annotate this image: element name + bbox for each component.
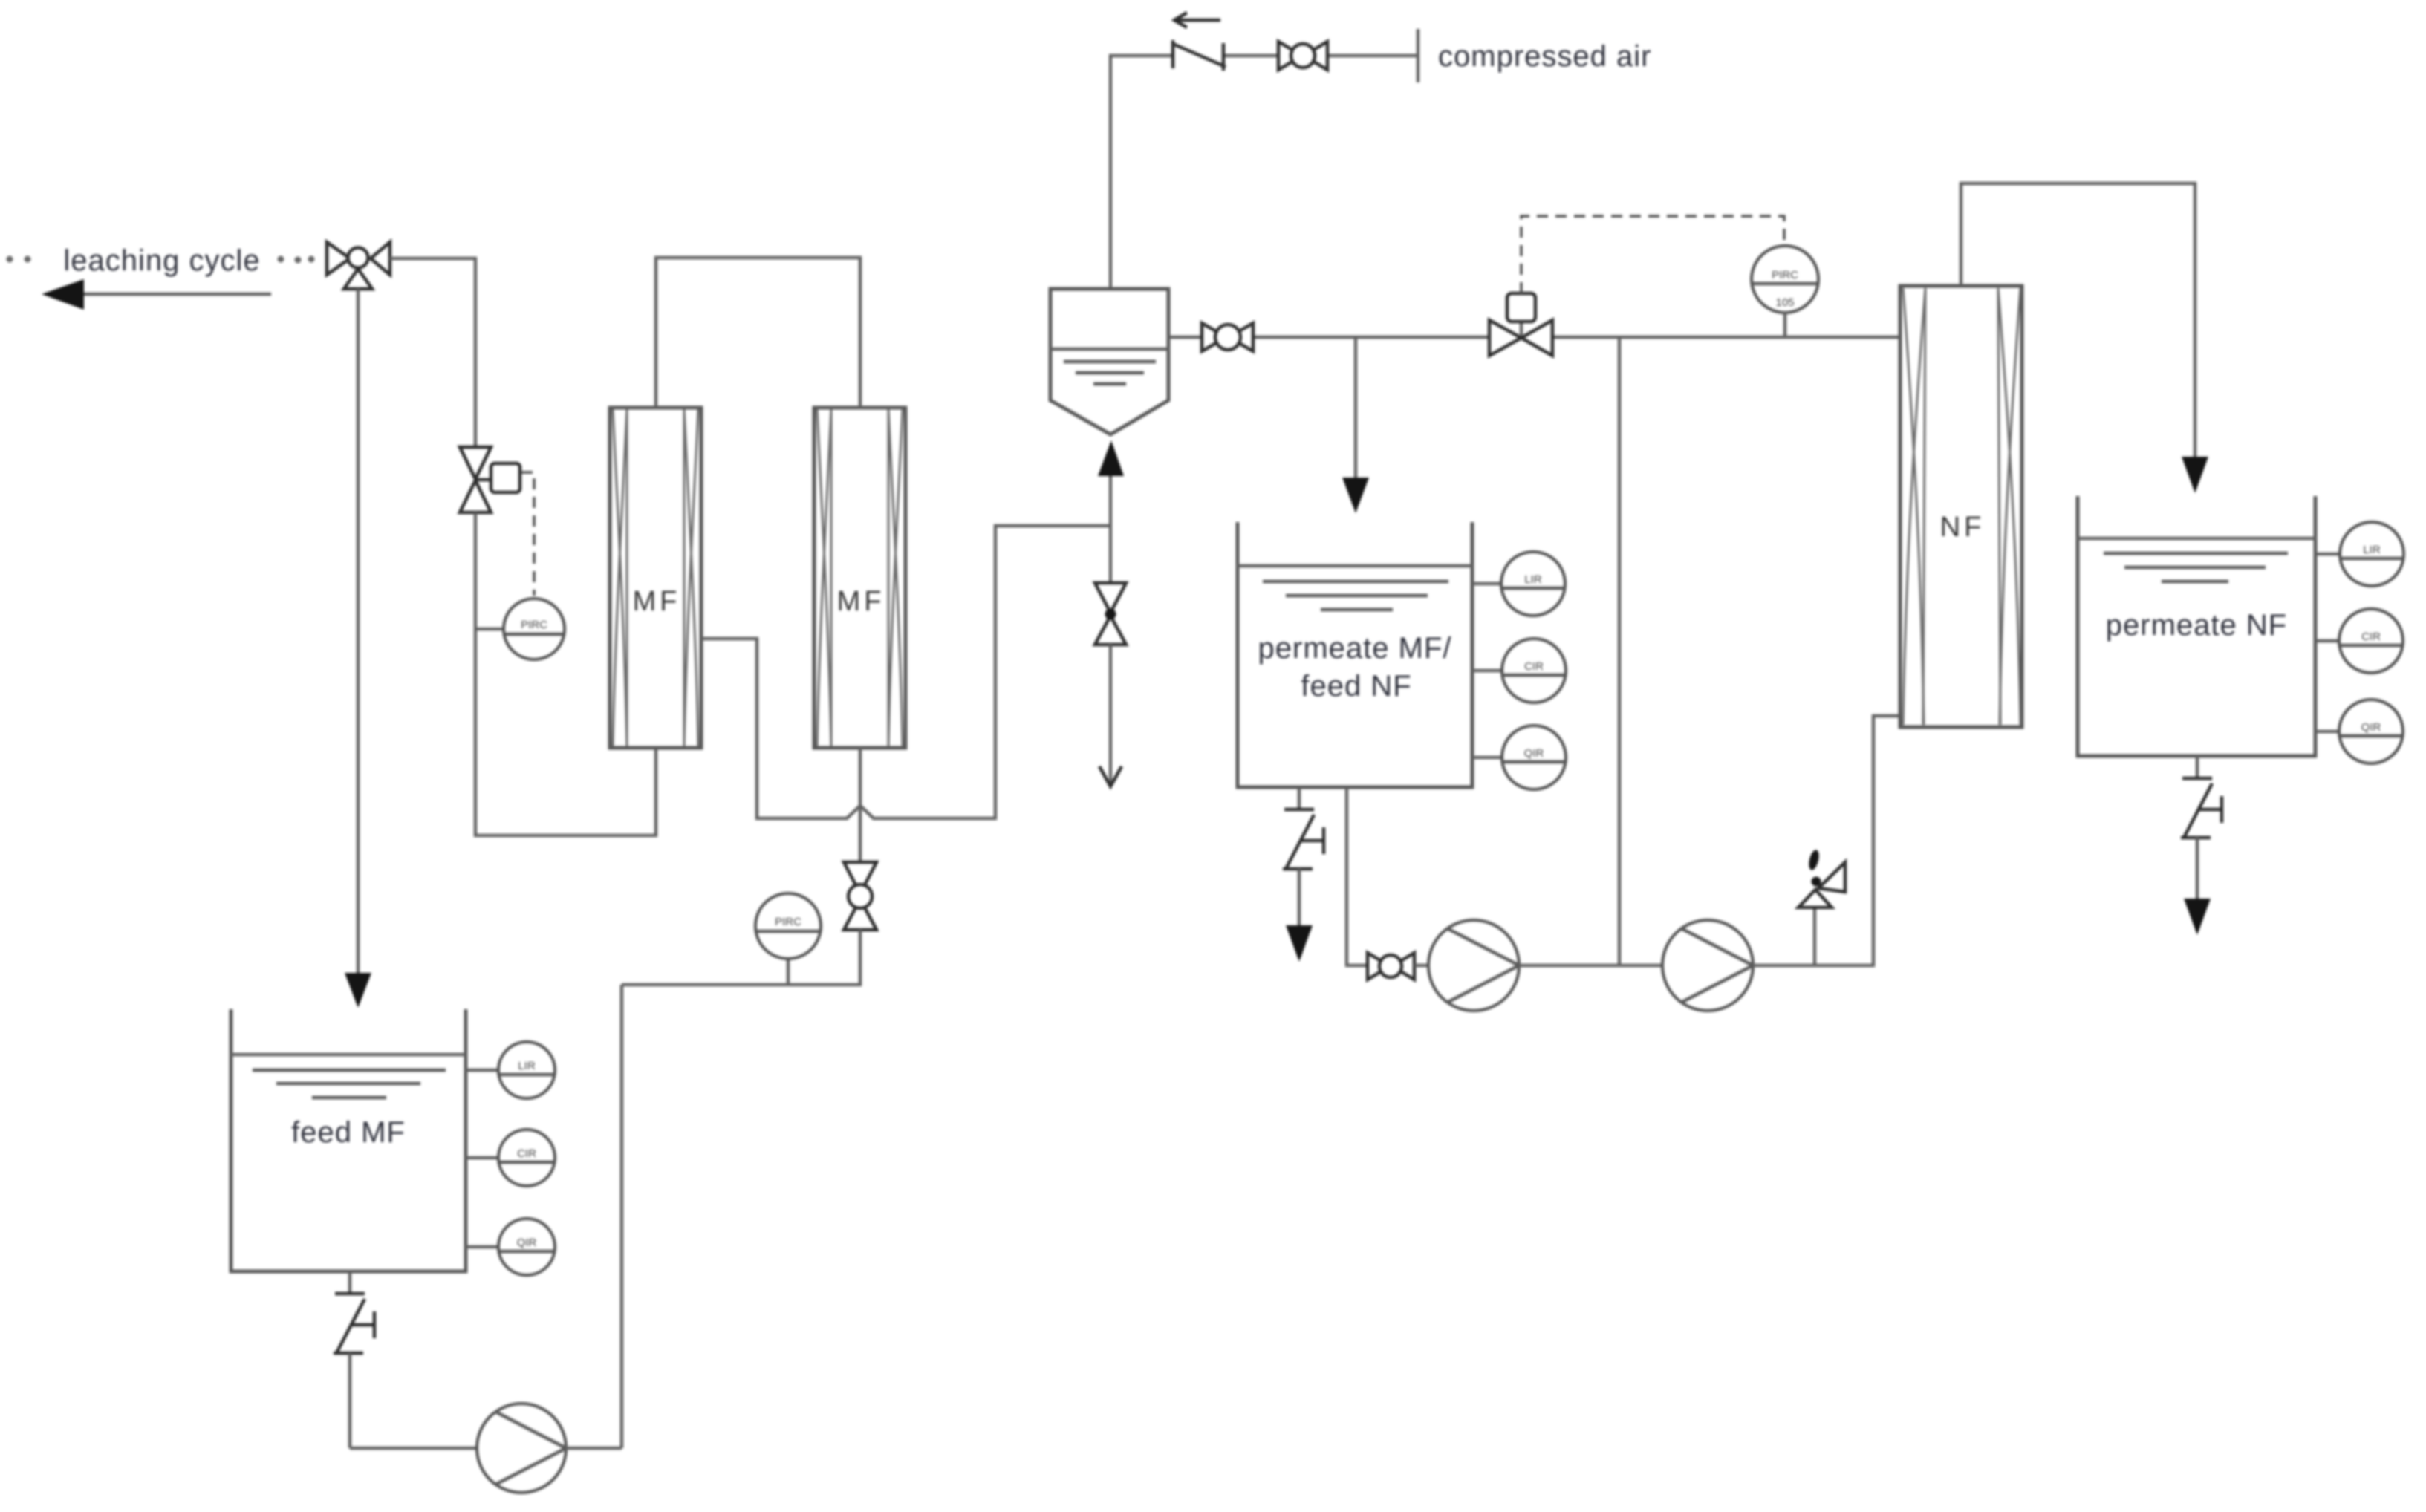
svg-text:leaching cycle: leaching cycle xyxy=(63,244,260,277)
valve V11 relief valve xyxy=(1798,849,1845,965)
wire MF1 side port to collection header and up to separator tee xyxy=(701,526,1110,818)
wire pump P2 to pump P3 xyxy=(1519,964,1662,968)
arrow vent direction xyxy=(1174,13,1220,27)
svg-text:PIRC: PIRC xyxy=(521,619,547,631)
wire pump P3 outlet to NF bottom xyxy=(1753,716,1900,965)
arrow into permeate MF tank xyxy=(1342,478,1369,513)
instrument PIRC-105 xyxy=(1752,246,1818,337)
signal wire dashed V2 to PIRC-1 xyxy=(521,472,534,596)
svg-text:LIR: LIR xyxy=(2363,544,2381,556)
arrow to leaching cycle (left) xyxy=(42,279,271,310)
instrument CIR (feed MF) xyxy=(466,1130,555,1186)
svg-text:NF: NF xyxy=(1940,512,1986,543)
pump P2 NF feed pump xyxy=(1428,920,1519,1011)
valve V8 control valve on NF feed xyxy=(1489,293,1552,356)
wire V2 down and to MF1 bottom xyxy=(475,512,656,835)
wire valve to pump P2 xyxy=(1414,964,1430,968)
svg-text:feed MF: feed MF xyxy=(291,1116,406,1149)
valve V10 globe valve before NF feed pump xyxy=(1368,953,1414,980)
valve V9 hand drain valve under permeate MF tank xyxy=(1283,787,1324,927)
svg-text:MF: MF xyxy=(633,586,681,617)
svg-text:QIR: QIR xyxy=(1524,747,1544,760)
wire three-way valve bottom port to feed MF tank xyxy=(357,289,360,974)
wire permeate MF tank outlet to pump line xyxy=(1347,787,1368,965)
wire three-way valve right port to MF branch xyxy=(390,258,475,447)
svg-text:LIR: LIR xyxy=(518,1060,536,1072)
node leaching-cycle dotted line xyxy=(7,256,315,264)
wire MF2 bottom stub xyxy=(859,748,862,862)
valve V6 separator drain valve xyxy=(1095,583,1126,645)
svg-text:QIR: QIR xyxy=(2361,721,2381,734)
arrow drain permeate MF xyxy=(1286,925,1313,962)
svg-text:compressed air: compressed air xyxy=(1438,40,1651,73)
wire separator drain xyxy=(1109,476,1113,583)
wire drain to vent arrow xyxy=(1109,645,1113,786)
check valve on compressed air line xyxy=(1173,40,1226,71)
tank permeate MF / feed NF xyxy=(1238,522,1472,787)
instrument QIR (permeate NF) xyxy=(2315,700,2403,763)
wire branch down to permeate MF tank xyxy=(1354,337,1358,479)
wire V3 to circulation header xyxy=(622,930,860,985)
svg-text:QIR: QIR xyxy=(517,1236,537,1249)
valve V12 hand drain valve under permeate NF tank xyxy=(2181,756,2222,900)
vessel separator tank xyxy=(1050,289,1168,434)
wire separator top riser and compressed air header xyxy=(1110,56,1173,289)
svg-text:LIR: LIR xyxy=(1524,573,1542,586)
valve V3 globe valve under MF2 xyxy=(844,862,877,930)
tank permeate NF xyxy=(2078,496,2315,756)
instrument PIRC-2 xyxy=(755,893,821,985)
svg-text:permeate MF/: permeate MF/ xyxy=(1258,632,1452,665)
svg-text:CIR: CIR xyxy=(517,1147,536,1160)
pump P3 NF circulation pump xyxy=(1662,920,1753,1011)
wire NF permeate to permeate NF tank xyxy=(1961,183,2195,458)
arrow open chevron down xyxy=(1099,766,1122,786)
valve V7 globe valve at separator outlet xyxy=(1202,323,1253,351)
valve V4 hand drain valve under feed MF tank xyxy=(334,1271,374,1448)
wire MF1 top to MF2 top xyxy=(656,258,860,408)
arrow up into separator xyxy=(1098,440,1124,476)
tank feed MF xyxy=(231,1009,466,1271)
arrow drain permeate NF xyxy=(2184,899,2211,935)
svg-text:feed NF: feed NF xyxy=(1301,670,1411,703)
wire branch down to pump line xyxy=(1618,337,1622,965)
svg-text:105: 105 xyxy=(1775,296,1794,309)
membrane module MF-2 xyxy=(814,408,905,748)
signal wire dashed V8 to PIRC-105 xyxy=(1521,216,1784,293)
arrow into feed MF tank xyxy=(345,973,371,1008)
svg-text:PIRC: PIRC xyxy=(775,916,801,928)
membrane module NF xyxy=(1900,286,2022,727)
wire circulation riser xyxy=(620,985,624,1448)
wire separator outlet to NF feed xyxy=(1168,336,1202,339)
instrument LIR (permeate NF) xyxy=(2315,522,2404,586)
valve V5 globe valve on compressed air line xyxy=(1278,42,1327,70)
svg-text:MF: MF xyxy=(837,586,885,617)
arrow into permeate NF tank xyxy=(2182,457,2208,493)
node compressed air source terminator xyxy=(1417,29,1420,82)
valve V1 three-way valve xyxy=(327,242,390,289)
svg-text:permeate NF: permeate NF xyxy=(2106,609,2287,642)
instrument QIR (permeate MF) xyxy=(1472,726,1566,789)
pump P1 feed pump xyxy=(477,1404,566,1493)
instrument LIR (feed MF) xyxy=(466,1042,555,1098)
membrane module MF-1 xyxy=(610,408,701,748)
svg-text:PIRC: PIRC xyxy=(1772,269,1798,281)
svg-text:CIR: CIR xyxy=(1524,660,1544,673)
instrument CIR (permeate MF) xyxy=(1472,639,1566,703)
instrument LIR (permeate MF) xyxy=(1472,552,1565,616)
valve V2 control valve with actuator xyxy=(460,447,520,512)
instrument QIR (feed MF) xyxy=(466,1219,555,1275)
wire feed pump outlet xyxy=(566,1447,622,1450)
svg-text:CIR: CIR xyxy=(2361,630,2381,643)
wire drain to feed pump xyxy=(350,1447,478,1450)
instrument CIR (permeate NF) xyxy=(2315,609,2403,673)
instrument PIRC-1 xyxy=(475,599,565,659)
